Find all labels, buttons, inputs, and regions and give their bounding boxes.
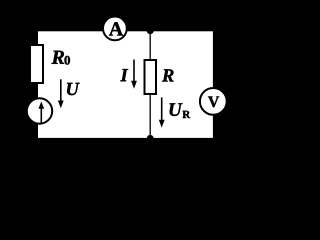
label U	[67, 83, 80, 95]
label R	[162, 69, 174, 81]
circuit interior (white panel bounded by loop wires)	[38, 31, 213, 138]
wire middle vertical top segment	[149, 31, 151, 60]
node junction bottom	[147, 135, 154, 142]
source arrow	[40, 108, 42, 124]
node junction top	[147, 27, 154, 34]
current arrow I	[133, 60, 135, 82]
voltmeter V	[200, 88, 227, 115]
source U1 (circle with up arrow)	[27, 98, 52, 123]
label UR	[170, 103, 183, 116]
label R0	[51, 51, 64, 64]
resistor R0	[30, 45, 43, 83]
resistor R	[145, 60, 157, 94]
voltage arrow UR	[161, 97, 163, 120]
voltage arrow U	[60, 79, 62, 101]
label I	[120, 69, 128, 81]
wire middle vertical bottom segment	[149, 95, 151, 138]
ammeter A	[103, 17, 127, 41]
